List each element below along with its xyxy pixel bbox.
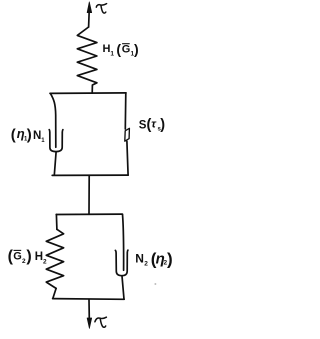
svg-text:S: S	[139, 120, 147, 132]
wire: center connector node	[88, 175, 90, 214]
wire: rect1 bottom edge	[52, 174, 128, 176]
label tau (top)	[96, 4, 106, 13]
wire: rect1 right side upper	[124, 93, 127, 129]
label N2 (eta2)	[135, 250, 172, 269]
svg-text:1: 1	[110, 51, 114, 58]
svg-text:(: (	[116, 41, 121, 57]
wire: rect2 left upper	[55, 215, 58, 230]
svg-text:N: N	[33, 130, 41, 142]
slider S (St.Venant element)	[125, 128, 130, 141]
label S (tau_s)	[139, 117, 166, 133]
label H1 (G1)	[103, 41, 139, 58]
svg-text:): )	[134, 41, 139, 57]
wire: rect1 left rod into dashpot	[50, 93, 55, 147]
svg-text:G: G	[13, 251, 22, 263]
label (eta1) N1	[11, 126, 46, 144]
top stress arrow tau	[87, 2, 92, 27]
svg-text:): )	[26, 248, 31, 265]
svg-text:2: 2	[22, 258, 26, 265]
label tau (bottom)	[95, 317, 107, 327]
wire: rect2 left lower	[53, 288, 56, 298]
svg-text:N: N	[135, 252, 144, 266]
svg-text:2: 2	[43, 259, 47, 266]
svg-text:H: H	[35, 251, 43, 263]
wire: below N2 cup	[122, 276, 124, 299]
wire: rect1 right side lower	[127, 141, 128, 175]
wire: rect1 top edge	[50, 92, 126, 95]
spring H2	[46, 229, 63, 288]
wire: rect2 top edge	[56, 213, 122, 215]
dashpot N1 cup	[49, 130, 63, 152]
speck	[155, 283, 157, 284]
bottom stress arrow tau	[87, 300, 92, 329]
svg-text:): )	[160, 117, 165, 133]
label (G2) H2	[8, 248, 47, 266]
svg-text:2: 2	[144, 261, 148, 268]
svg-text:(: (	[11, 127, 16, 144]
svg-text:): )	[27, 127, 32, 144]
svg-text:H: H	[103, 43, 111, 55]
dashpot N2 cup	[115, 250, 128, 276]
svg-text:): )	[167, 250, 173, 269]
svg-text:G: G	[122, 44, 131, 56]
wire: rect2 right rod into dashpot	[123, 214, 124, 270]
wire: rect2 bottom edge	[53, 298, 125, 301]
wire: below N1 cup	[54, 152, 56, 175]
spring H1	[77, 27, 97, 93]
